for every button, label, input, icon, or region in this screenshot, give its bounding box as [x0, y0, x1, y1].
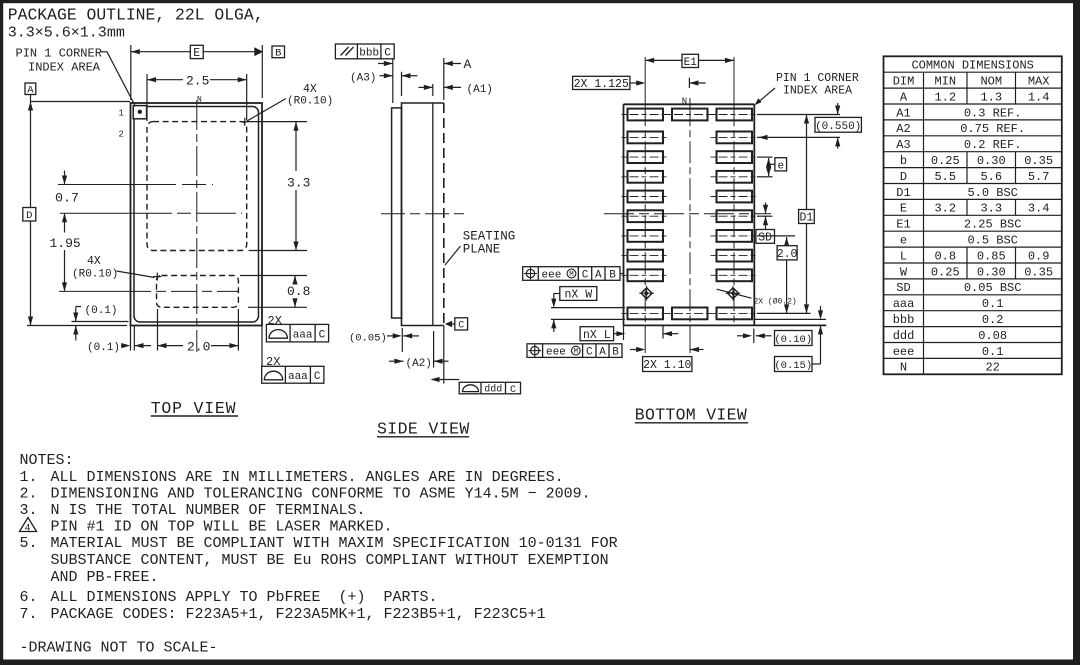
pad row 8	[717, 250, 753, 262]
dimension E (horizontal, top)	[130, 45, 132, 100]
svg-text:M: M	[574, 348, 579, 356]
svg-text:5.: 5.	[20, 535, 38, 552]
svg-text:ALL DIMENSIONS APPLY TO PbFREE: ALL DIMENSIONS APPLY TO PbFREE (+) PARTS…	[51, 589, 438, 606]
svg-text:A: A	[900, 90, 908, 104]
lower rect centerline (1.95 reference line)	[59, 290, 238, 292]
svg-text:(0.1): (0.1)	[87, 342, 120, 354]
dimension 0.7	[64, 171, 66, 185]
svg-text:(A1): (A1)	[467, 84, 493, 96]
dimension A	[392, 59, 394, 103]
pad row 6	[628, 210, 664, 222]
svg-text:0.08: 0.08	[978, 329, 1007, 343]
nX W frame	[560, 287, 597, 301]
svg-text:0.7: 0.7	[55, 191, 79, 206]
svg-text:0.75 REF.: 0.75 REF.	[960, 122, 1025, 136]
svg-text:(A2): (A2)	[406, 358, 432, 370]
fiducial right 2X Ø0.2	[728, 288, 739, 299]
dimension (0.15)	[820, 306, 822, 318]
side view internal line (land boundary)	[432, 84, 434, 96]
svg-text:b: b	[900, 154, 907, 168]
svg-text:SD: SD	[758, 232, 772, 245]
svg-text:SD: SD	[896, 281, 910, 295]
datum A flag and dimension D (left)	[25, 83, 36, 95]
datum D flag	[23, 208, 36, 222]
pad row 4	[628, 171, 664, 183]
pad row 2	[628, 132, 664, 144]
svg-text:(0.550): (0.550)	[815, 121, 861, 133]
bottom view package outline	[624, 103, 755, 105]
svg-text:B: B	[609, 270, 616, 282]
svg-text:(R0.10): (R0.10)	[72, 268, 118, 280]
fiducial left 2X Ø0.2	[641, 288, 652, 299]
svg-text:E1: E1	[684, 57, 698, 69]
svg-text:4X: 4X	[303, 83, 317, 96]
svg-text:PIN #1 ID ON TOP WILL BE LASER: PIN #1 ID ON TOP WILL BE LASER MARKED.	[51, 519, 393, 536]
svg-text:bbb: bbb	[893, 313, 915, 327]
svg-text:N: N	[197, 96, 202, 105]
svg-text:A3: A3	[896, 138, 910, 152]
svg-text:E: E	[900, 202, 907, 216]
svg-text:C: C	[458, 321, 464, 332]
dimension 1.95	[64, 213, 66, 232]
svg-text:3.3: 3.3	[980, 202, 1002, 216]
dimension SD	[757, 215, 773, 217]
svg-text:3.: 3.	[20, 502, 38, 519]
svg-text:BOTTOM VIEW: BOTTOM VIEW	[635, 406, 747, 425]
svg-text:e: e	[900, 233, 907, 247]
svg-text:(0.15): (0.15)	[774, 360, 812, 372]
seating plane edge (dashed) + extension	[443, 103, 445, 326]
svg-text:SEATING: SEATING	[463, 230, 516, 244]
svg-text:B: B	[612, 347, 619, 359]
svg-text:MATERIAL MUST BE COMPLIANT WIT: MATERIAL MUST BE COMPLIANT WITH MAXIM SP…	[51, 535, 618, 552]
svg-text:1.3: 1.3	[980, 90, 1002, 104]
svg-text:NOTES:: NOTES:	[20, 452, 74, 469]
pad row 6	[717, 210, 753, 222]
svg-text:4: 4	[25, 524, 31, 535]
svg-text:NOM: NOM	[980, 74, 1002, 88]
pad row 3	[628, 151, 664, 163]
svg-text:A: A	[599, 347, 606, 359]
svg-text:(0.05): (0.05)	[349, 333, 387, 345]
dimension 2X 1.10	[630, 349, 643, 351]
dimension 2.5	[146, 74, 148, 121]
svg-text:0.05 BSC: 0.05 BSC	[964, 281, 1022, 295]
pad row 9	[717, 269, 753, 281]
svg-text:A2: A2	[896, 122, 910, 136]
datum B flag	[272, 46, 285, 58]
dimension (A2)	[389, 360, 403, 362]
dimension 3.3 (right)	[249, 121, 308, 123]
pad row 5	[717, 191, 753, 203]
svg-text:0.85: 0.85	[977, 249, 1006, 263]
svg-text:2.5: 2.5	[186, 73, 209, 88]
svg-text:PLANE: PLANE	[463, 243, 501, 257]
side view centerline	[381, 213, 469, 215]
svg-text:0.25: 0.25	[931, 154, 960, 168]
pad row 10	[672, 308, 708, 320]
svg-text:E: E	[193, 47, 200, 60]
dimension 2X 1.125	[573, 76, 630, 89]
svg-text:SIDE VIEW: SIDE VIEW	[377, 420, 470, 439]
svg-text:2: 2	[119, 130, 124, 140]
svg-text:(R0.10): (R0.10)	[287, 95, 333, 107]
svg-text:5.0 BSC: 5.0 BSC	[967, 186, 1017, 200]
svg-text:W: W	[900, 265, 908, 279]
svg-text:PACKAGE OUTLINE, 22L OLGA,: PACKAGE OUTLINE, 22L OLGA,	[8, 6, 264, 25]
pad row 9	[628, 269, 664, 281]
svg-text:MIN: MIN	[934, 74, 956, 88]
pad bottom extension line	[754, 318, 826, 320]
svg-text:(A3): (A3)	[350, 73, 376, 85]
pad row 2	[717, 132, 753, 144]
svg-text:2X 1.125: 2X 1.125	[574, 78, 629, 91]
top view horizontal centerline	[60, 212, 242, 214]
svg-text:2.25 BSC: 2.25 BSC	[964, 218, 1022, 232]
dimension e	[757, 156, 773, 158]
svg-text:DIMENSIONING AND TOLERANCING C: DIMENSIONING AND TOLERANCING CONFORME TO…	[51, 486, 591, 503]
pad column centerlines	[644, 57, 646, 104]
ddd C frame	[432, 379, 459, 381]
svg-text:A: A	[595, 270, 602, 282]
pad row 3	[717, 151, 753, 163]
svg-text:C: C	[384, 48, 391, 60]
svg-text:0.2: 0.2	[982, 313, 1004, 327]
svg-text:0.1: 0.1	[982, 297, 1004, 311]
svg-text:COMMON DIMENSIONS: COMMON DIMENSIONS	[911, 59, 1033, 73]
svg-text:C: C	[319, 330, 326, 342]
nX L frame	[580, 327, 614, 341]
dimension 2.0 (bottom)	[133, 326, 135, 351]
pin 1 index area box	[133, 106, 146, 119]
svg-text:5.6: 5.6	[980, 170, 1002, 184]
eee position frame upper	[523, 267, 620, 281]
svg-text:3.3×5.6×1.3mm: 3.3×5.6×1.3mm	[8, 25, 125, 42]
svg-text:0.30: 0.30	[977, 265, 1006, 279]
svg-text:N: N	[682, 97, 687, 107]
svg-text:0.3 REF.: 0.3 REF.	[964, 106, 1022, 120]
svg-text:aaa: aaa	[893, 297, 915, 311]
pad row 1	[672, 109, 708, 121]
side view body	[402, 103, 444, 326]
svg-text:2.0: 2.0	[777, 248, 798, 261]
pad row 7	[717, 230, 753, 242]
svg-text:DIM: DIM	[893, 74, 915, 88]
dashed lower rect (2.0 x 0.8)	[157, 276, 239, 308]
dimension 0.8 (right)	[240, 275, 307, 277]
pad row 7	[628, 230, 664, 242]
svg-text:E1: E1	[896, 218, 910, 232]
svg-text:5.7: 5.7	[1028, 170, 1050, 184]
svg-text:7.: 7.	[20, 606, 38, 623]
pad row 4	[717, 171, 753, 183]
svg-text:eee: eee	[542, 269, 562, 281]
TOP VIEW package outer outline (substrate)	[131, 103, 263, 326]
dimension 2.0	[757, 235, 795, 237]
svg-text:6.: 6.	[20, 589, 38, 606]
svg-text:4X: 4X	[87, 255, 101, 268]
pad row 8	[628, 250, 664, 262]
svg-text:1.: 1.	[20, 469, 38, 486]
datum C flag	[445, 321, 452, 328]
svg-text:ddd: ddd	[484, 384, 502, 396]
svg-text:0.2 REF.: 0.2 REF.	[964, 138, 1022, 152]
svg-text:SUBSTANCE CONTENT, MUST BE Eu: SUBSTANCE CONTENT, MUST BE Eu ROHS COMPL…	[51, 552, 609, 569]
svg-text:bbb: bbb	[359, 47, 379, 59]
svg-text:C: C	[586, 347, 593, 359]
bbb C parallelism frame	[335, 44, 394, 59]
svg-text:1: 1	[119, 109, 124, 119]
dimension (0.10)	[753, 329, 755, 344]
leader to pin1 corner	[101, 51, 108, 53]
svg-text:D1: D1	[896, 186, 910, 200]
svg-text:eee: eee	[546, 347, 566, 359]
svg-text:M: M	[569, 271, 574, 279]
svg-text:INDEX AREA: INDEX AREA	[28, 61, 101, 75]
svg-text:D: D	[26, 210, 32, 222]
svg-text:-DRAWING NOT TO SCALE-: -DRAWING NOT TO SCALE-	[20, 640, 218, 657]
svg-text:C: C	[510, 385, 516, 396]
svg-text:aaa: aaa	[293, 329, 313, 341]
svg-text:1.95: 1.95	[50, 236, 81, 251]
pad row 10	[717, 308, 753, 320]
svg-text:D1: D1	[800, 212, 814, 225]
svg-text:2.0: 2.0	[187, 340, 210, 355]
dimension (A1)	[419, 86, 433, 88]
svg-text:1.4: 1.4	[1028, 90, 1050, 104]
svg-text:INDEX AREA: INDEX AREA	[783, 84, 852, 97]
top view vertical centerline	[196, 100, 198, 352]
pad row 1	[717, 109, 753, 121]
common dimensions table	[884, 56, 1062, 374]
dashed exposed area rect (3.3 x 2.5)	[147, 122, 247, 251]
svg-text:aaa: aaa	[288, 371, 308, 383]
svg-text:3.3: 3.3	[287, 176, 310, 191]
svg-text:0.8: 0.8	[287, 284, 310, 299]
svg-text:e: e	[777, 160, 784, 172]
svg-text:MAX: MAX	[1028, 74, 1050, 88]
svg-text:0.25: 0.25	[931, 265, 960, 279]
svg-text:A: A	[464, 57, 472, 72]
pad row 1	[628, 109, 664, 121]
svg-text:L: L	[900, 249, 907, 263]
svg-text:N: N	[900, 361, 907, 375]
svg-text:nX W: nX W	[564, 289, 592, 302]
svg-text:AND PB-FREE.: AND PB-FREE.	[51, 569, 159, 586]
svg-text:2.: 2.	[20, 486, 38, 503]
svg-text:0.1: 0.1	[982, 345, 1004, 359]
svg-text:5.5: 5.5	[934, 170, 956, 184]
svg-text:nX L: nX L	[583, 329, 611, 342]
svg-text:(0.1): (0.1)	[85, 305, 118, 317]
svg-text:C: C	[582, 270, 589, 282]
svg-text:0.30: 0.30	[977, 154, 1006, 168]
eee position frame lower	[527, 344, 622, 358]
dimension D1	[806, 115, 808, 314]
svg-text:eee: eee	[893, 345, 915, 359]
dimension E1	[645, 59, 682, 61]
svg-text:1.2: 1.2	[934, 90, 956, 104]
svg-text:PACKAGE CODES: F223A5+1, F223A: PACKAGE CODES: F223A5+1, F223A5MK+1, F22…	[51, 606, 546, 623]
svg-text:0.5 BSC: 0.5 BSC	[967, 233, 1017, 247]
pad row 10	[628, 308, 664, 320]
svg-text:C: C	[314, 371, 321, 383]
svg-text:2X 1.10: 2X 1.10	[643, 359, 691, 372]
svg-text:22: 22	[985, 361, 999, 375]
svg-text:ALL DIMENSIONS ARE IN MILLIMET: ALL DIMENSIONS ARE IN MILLIMETERS. ANGLE…	[51, 469, 564, 486]
svg-text:N IS THE TOTAL NUMBER OF TERMI: N IS THE TOTAL NUMBER OF TERMINALS.	[51, 502, 366, 519]
svg-text:PIN 1 CORNER: PIN 1 CORNER	[776, 72, 859, 85]
dimension (0.550)	[757, 114, 840, 116]
TOP VIEW package inner outline (mold body)	[134, 107, 259, 323]
svg-text:0.8: 0.8	[934, 249, 956, 263]
svg-text:0.35: 0.35	[1024, 265, 1053, 279]
svg-text:3.4: 3.4	[1028, 202, 1050, 216]
note 4 triangle flag	[20, 518, 37, 532]
svg-text:A1: A1	[896, 106, 910, 120]
pad row 5	[628, 191, 664, 203]
bottom view horizontal centerline	[604, 213, 771, 215]
W extension lines (row 10 pad edges)	[551, 307, 625, 309]
side view substrate strip	[392, 108, 402, 318]
svg-text:2X (Ø0.2): 2X (Ø0.2)	[754, 298, 797, 307]
fiducial leader	[717, 289, 752, 298]
svg-text:TOP VIEW: TOP VIEW	[151, 399, 237, 418]
svg-text:PIN 1 CORNER: PIN 1 CORNER	[16, 47, 102, 61]
svg-text:B: B	[275, 48, 281, 60]
svg-text:3.2: 3.2	[934, 202, 956, 216]
svg-text:ddd: ddd	[893, 329, 915, 343]
svg-text:D: D	[900, 170, 907, 184]
svg-text:0.35: 0.35	[1024, 154, 1053, 168]
svg-text:(0.10): (0.10)	[774, 334, 812, 346]
upper rect centerline (0.7 reference line)	[58, 184, 213, 186]
svg-text:0.9: 0.9	[1028, 249, 1050, 263]
